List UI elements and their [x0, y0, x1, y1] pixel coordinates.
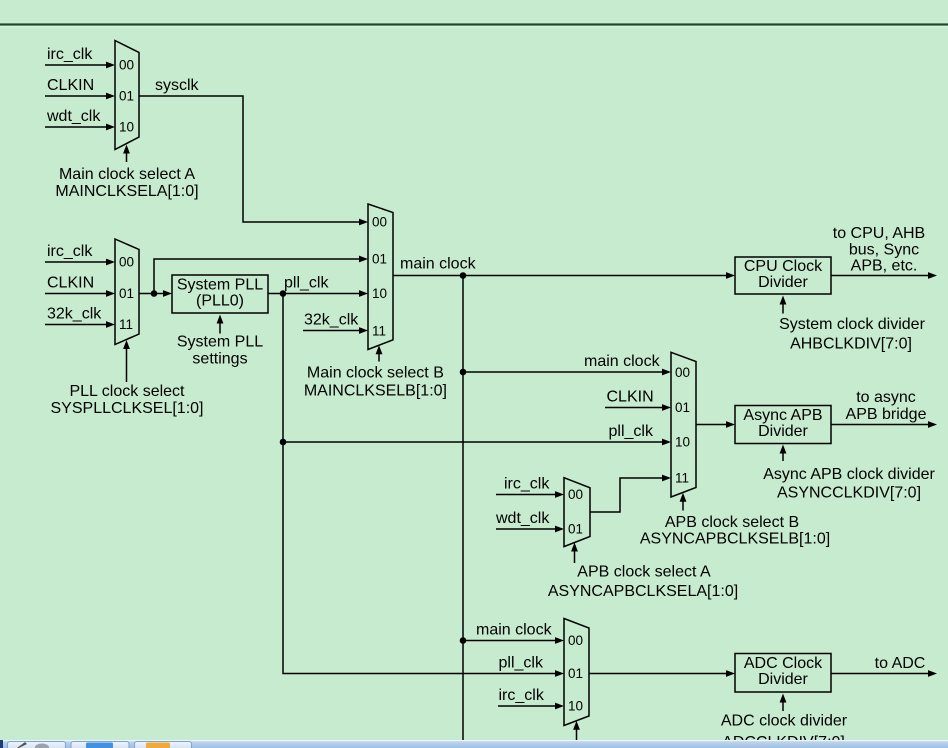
wire main clock vertical bus — [462, 276, 464, 741]
svg-text:wdt_clk: wdt_clk — [46, 108, 101, 125]
block Async APB Divider — [735, 406, 831, 444]
svg-text:bus, Sync: bus, Sync — [849, 242, 919, 259]
svg-text:Async APB: Async APB — [743, 407, 822, 424]
svg-text:01: 01 — [119, 89, 134, 104]
svg-text:irc_clk: irc_clk — [499, 687, 545, 704]
block ADC Clock Divider — [735, 654, 831, 693]
mux B SYSPLLCLKSEL — [115, 239, 139, 345]
svg-text:11: 11 — [675, 471, 689, 486]
svg-text:(PLL0): (PLL0) — [196, 293, 244, 310]
wire mux B output to System PLL input — [139, 293, 164, 295]
arrowhead mux A pin 10 — [106, 124, 115, 131]
svg-text:CPU Clock: CPU Clock — [744, 258, 823, 275]
svg-text:10: 10 — [372, 286, 387, 301]
svg-text:SYSPLLCLKSEL[1:0]: SYSPLLCLKSEL[1:0] — [51, 400, 204, 417]
wire main clock branch to mux F pin 00 — [463, 640, 556, 642]
svg-text:wdt_clk: wdt_clk — [495, 510, 550, 527]
wire select arrow mux C — [378, 353, 380, 362]
svg-text:pll_clk: pll_clk — [284, 275, 329, 292]
arrowhead Async APB Divider input — [726, 421, 735, 428]
arrowhead mux F pin 00 — [555, 637, 564, 644]
svg-text:01: 01 — [372, 252, 387, 267]
svg-text:Main clock select A: Main clock select A — [59, 166, 195, 183]
svg-text:AHBCLKDIV[7:0]: AHBCLKDIV[7:0] — [790, 336, 912, 353]
arrowhead mux B pin 11 — [106, 321, 115, 328]
wire mux E output to mux D pin 11 — [590, 478, 663, 512]
arrowhead mux B select — [123, 340, 130, 349]
arrowhead mux B pin 00 — [106, 259, 115, 266]
wire irc_clk to mux E pin 00 — [496, 494, 556, 496]
wire irc_clk to mux B pin 00 — [45, 261, 107, 263]
svg-text:32k_clk: 32k_clk — [304, 312, 359, 329]
arrowhead mux A pin 00 — [106, 62, 115, 69]
svg-text:APB clock select A: APB clock select A — [577, 564, 711, 581]
arrowhead mux D pin 11 — [662, 475, 671, 482]
arrowhead mux B pin 01 — [106, 290, 115, 297]
svg-text:System clock divider: System clock divider — [779, 316, 925, 333]
wire ADC Clock Divider output — [831, 673, 929, 675]
wire irc_clk to mux A pin 00 — [45, 64, 107, 66]
wire select arrow mux A — [126, 152, 128, 162]
toolbar separator line — [0, 23, 948, 25]
svg-text:00: 00 — [119, 255, 134, 270]
arrowhead mux D pin 10 — [662, 439, 671, 446]
svg-text:main clock: main clock — [400, 256, 477, 273]
arrowhead mux C pin 11 — [359, 327, 368, 334]
wire select arrow mux E — [574, 550, 576, 563]
svg-text:irc_clk: irc_clk — [47, 46, 93, 63]
svg-text:11: 11 — [119, 317, 133, 332]
svg-text:APB clock select B: APB clock select B — [665, 514, 799, 531]
arrowhead mux E select — [571, 543, 578, 552]
svg-text:CLKIN: CLKIN — [47, 275, 94, 292]
svg-text:10: 10 — [119, 120, 134, 135]
wire wdt_clk to mux E pin 01 — [496, 528, 556, 530]
svg-text:01: 01 — [568, 666, 583, 681]
wire pll_clk vertical bus — [283, 294, 556, 674]
mux A MAINCLKSELA — [115, 41, 139, 150]
svg-text:10: 10 — [568, 699, 583, 714]
svg-text:MAINCLKSELA[1:0]: MAINCLKSELA[1:0] — [55, 183, 198, 200]
arrowhead mux C pin 01 — [359, 256, 368, 263]
arrowhead mux C pin 10 — [359, 290, 368, 297]
arrowhead mux F pin 01 — [555, 670, 564, 677]
junction pll_clk node — [280, 290, 287, 297]
svg-text:PLL clock select: PLL clock select — [69, 383, 185, 400]
svg-text:sysclk: sysclk — [155, 77, 200, 94]
svg-text:ASYNCCLKDIV[7:0]: ASYNCCLKDIV[7:0] — [777, 485, 921, 502]
arrowhead mux F select — [573, 721, 580, 730]
wire pll_clk: PLL output to mux C pin 10 — [268, 293, 360, 295]
svg-text:pll_clk: pll_clk — [499, 655, 544, 672]
svg-text:main clock: main clock — [476, 622, 553, 639]
wire CLKIN to mux B pin 01 — [45, 293, 107, 295]
svg-text:MAINCLKSELB[1:0]: MAINCLKSELB[1:0] — [304, 383, 447, 400]
svg-text:CLKIN: CLKIN — [47, 77, 94, 94]
arrowhead CPU Clock Divider input — [726, 272, 735, 279]
junction main clock to ADC branch — [460, 637, 467, 644]
arrowhead mux D pin 01 — [662, 404, 671, 411]
arrowhead mux D select — [680, 493, 687, 502]
svg-text:01: 01 — [675, 400, 690, 415]
wire divider arrow ADC Clock Divider — [782, 701, 784, 711]
wire main clock: mux C output to CPU Clock Divider — [393, 275, 727, 277]
mux E ASYNCAPBCLKSELA — [564, 478, 590, 547]
arrowhead mux A select — [123, 145, 130, 154]
arrowhead System PLL input — [163, 290, 172, 297]
wire irc_clk to mux F pin 10 — [498, 705, 556, 707]
svg-text:01: 01 — [119, 286, 134, 301]
svg-text:00: 00 — [568, 633, 583, 648]
arrowhead mux F pin 10 — [555, 703, 564, 710]
svg-text:00: 00 — [675, 365, 690, 380]
svg-text:System PLL: System PLL — [177, 277, 263, 294]
taskbar — [0, 740, 948, 748]
svg-text:00: 00 — [372, 215, 387, 230]
wire 32k_clk to mux C pin 11 — [303, 330, 360, 332]
wire CLKIN to mux A pin 01 — [45, 95, 107, 97]
svg-text:Divider: Divider — [758, 671, 808, 688]
taskbar button 1 — [8, 742, 66, 748]
arrowhead ADC Clock Divider input — [726, 670, 735, 677]
wire mux D output to Async APB Divider — [696, 424, 727, 426]
wire select arrow mux D — [682, 500, 684, 511]
svg-text:11: 11 — [372, 324, 386, 339]
wire CPU Clock Divider output — [831, 275, 929, 277]
svg-text:to CPU, AHB: to CPU, AHB — [833, 225, 925, 242]
svg-text:Divider: Divider — [758, 423, 808, 440]
block System PLL (PLL0) — [172, 275, 268, 313]
arrowhead APB divider select — [780, 445, 787, 454]
arrowhead System PLL settings — [217, 315, 224, 324]
arrowhead CPU divider select — [780, 296, 787, 305]
svg-text:00: 00 — [119, 58, 134, 73]
svg-text:32k_clk: 32k_clk — [47, 306, 102, 323]
arrowhead Async APB Divider output — [928, 421, 937, 428]
svg-text:irc_clk: irc_clk — [47, 243, 93, 260]
wire pll_clk branch to mux D pin 10 — [283, 441, 663, 443]
wire wdt_clk to mux A pin 10 — [45, 126, 107, 128]
arrowhead mux D pin 00 — [662, 369, 671, 376]
wire CLKIN to mux D pin 01 — [605, 407, 663, 409]
taskbar button 2 — [71, 742, 129, 748]
svg-text:System PLL: System PLL — [177, 334, 263, 351]
svg-text:10: 10 — [675, 435, 690, 450]
block CPU Clock Divider — [735, 257, 831, 294]
mux D ASYNCAPBCLKSELB — [671, 352, 696, 497]
svg-text:settings: settings — [192, 351, 247, 368]
svg-text:Async APB clock divider: Async APB clock divider — [763, 466, 935, 483]
svg-text:main clock: main clock — [584, 353, 661, 370]
svg-text:Divider: Divider — [758, 274, 808, 291]
svg-text:to async: to async — [856, 389, 916, 406]
taskbar start edge — [0, 740, 3, 748]
wire settings arrow System PLL — [219, 323, 221, 334]
svg-text:01: 01 — [568, 522, 583, 537]
junction pll_clk to APB branch — [280, 439, 287, 446]
taskbar button 3 — [135, 742, 192, 748]
wire 32k_clk to mux B pin 11 — [45, 324, 107, 326]
arrowhead mux E pin 00 — [555, 491, 564, 498]
arrowhead mux C select — [376, 345, 383, 354]
arrowhead mux A pin 01 — [106, 93, 115, 100]
wire mux F output to ADC Clock Divider — [589, 673, 727, 675]
junction mux B output node — [151, 290, 158, 297]
junction main clock node — [460, 272, 467, 279]
arrowhead mux C pin 00 — [359, 219, 368, 226]
svg-text:CLKIN: CLKIN — [607, 389, 654, 406]
wire node mux B output to mux C pin 01 — [154, 259, 360, 294]
junction main clock to APB branch — [460, 369, 467, 376]
svg-text:ADC Clock: ADC Clock — [744, 655, 823, 672]
wire select arrow mux F — [576, 728, 578, 741]
wire main clock branch to mux D pin 00 — [463, 371, 663, 373]
svg-text:ASYNCAPBCLKSELA[1:0]: ASYNCAPBCLKSELA[1:0] — [548, 583, 738, 600]
svg-text:Main clock select B: Main clock select B — [307, 365, 444, 382]
wire sysclk: mux A output to mux C pin 00 — [139, 96, 360, 222]
svg-text:APB, etc.: APB, etc. — [851, 258, 918, 275]
svg-text:to ADC: to ADC — [875, 655, 926, 672]
wire Async APB Divider output — [831, 424, 929, 426]
arrowhead mux E pin 01 — [555, 526, 564, 533]
arrowhead ADC Clock Divider output — [928, 670, 937, 677]
svg-text:APB bridge: APB bridge — [846, 406, 927, 423]
svg-text:irc_clk: irc_clk — [504, 476, 550, 493]
arrowhead CPU Clock Divider output — [928, 272, 937, 279]
mux F ADC clock select — [564, 619, 589, 726]
wire divider arrow Async APB Divider — [782, 452, 784, 461]
svg-text:00: 00 — [568, 487, 583, 502]
svg-text:pll_clk: pll_clk — [609, 423, 654, 440]
wire select arrow mux B — [126, 348, 128, 383]
svg-text:ADC clock divider: ADC clock divider — [721, 713, 848, 730]
arrowhead ADC divider select — [780, 694, 787, 703]
svg-text:ASYNCAPBCLKSELB[1:0]: ASYNCAPBCLKSELB[1:0] — [640, 531, 830, 548]
wire divider arrow CPU Clock Divider — [782, 304, 784, 314]
mux C MAINCLKSELB — [368, 204, 393, 350]
